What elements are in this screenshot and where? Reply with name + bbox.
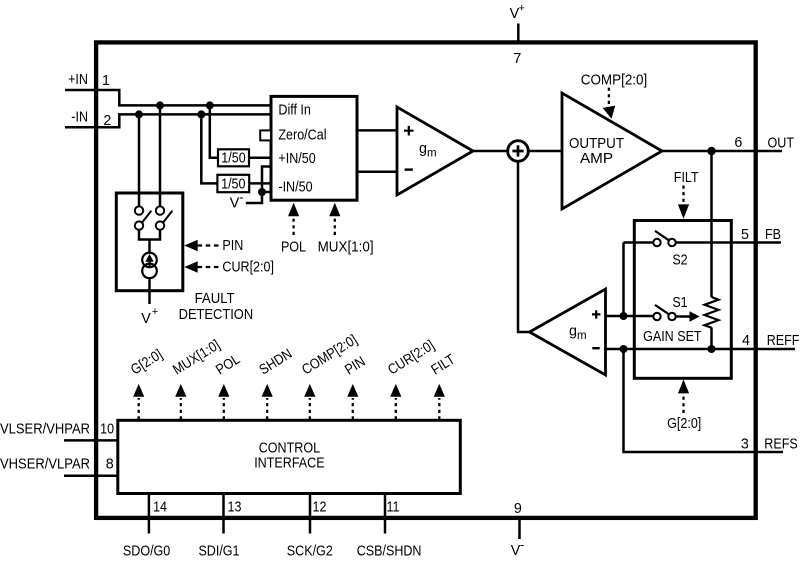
svg-text:10: 10: [100, 422, 114, 438]
svg-text:DETECTION: DETECTION: [179, 307, 254, 323]
svg-text:G[2:0]: G[2:0]: [667, 416, 701, 432]
svg-text:SDI/G1: SDI/G1: [198, 544, 239, 560]
svg-text:SCK/G2: SCK/G2: [287, 544, 333, 560]
svg-text:POL: POL: [281, 240, 306, 256]
svg-text:INTERFACE: INTERFACE: [254, 456, 324, 472]
svg-text:1: 1: [102, 73, 110, 89]
svg-text:14: 14: [153, 499, 167, 515]
svg-text:+IN: +IN: [68, 72, 88, 88]
svg-text:OUT: OUT: [768, 136, 795, 152]
svg-text:Diff In: Diff In: [278, 103, 311, 119]
svg-text:8: 8: [106, 457, 114, 473]
svg-text:FILT: FILT: [674, 170, 699, 186]
svg-text:FB: FB: [765, 227, 781, 243]
svg-text:-: -: [520, 537, 524, 552]
svg-text:S1: S1: [672, 295, 687, 311]
svg-text:S2: S2: [672, 252, 687, 268]
svg-text:SDO/G0: SDO/G0: [123, 544, 170, 560]
svg-text:FAULT: FAULT: [195, 291, 235, 307]
svg-text:6: 6: [734, 135, 742, 151]
svg-text:VLSER/VHPAR: VLSER/VHPAR: [0, 422, 90, 438]
svg-text:5: 5: [741, 227, 749, 243]
svg-text:4: 4: [742, 333, 750, 349]
svg-text:CONTROL: CONTROL: [259, 440, 320, 456]
svg-text:VHSER/VLPAR: VHSER/VLPAR: [0, 457, 90, 473]
svg-text:CSB/SHDN: CSB/SHDN: [357, 544, 422, 560]
svg-text:MUX[1:0]: MUX[1:0]: [318, 240, 374, 256]
svg-text:REFF: REFF: [767, 333, 800, 349]
svg-text:11: 11: [387, 499, 400, 515]
svg-text:1/50: 1/50: [221, 151, 245, 167]
svg-text:-: -: [239, 190, 243, 205]
svg-text:12: 12: [313, 499, 327, 515]
svg-text:3: 3: [741, 436, 749, 452]
svg-text:Zero/Cal: Zero/Cal: [278, 128, 326, 144]
svg-text:9: 9: [514, 501, 522, 517]
svg-text:+IN/50: +IN/50: [278, 151, 315, 167]
svg-text:-IN/50: -IN/50: [278, 180, 312, 196]
svg-text:-IN: -IN: [71, 110, 88, 126]
svg-text:PIN: PIN: [222, 238, 243, 254]
svg-text:2: 2: [103, 113, 111, 129]
svg-text:+: +: [152, 306, 158, 318]
svg-text:+: +: [519, 3, 525, 15]
svg-text:7: 7: [513, 51, 521, 67]
svg-text:V: V: [141, 311, 151, 327]
svg-text:13: 13: [228, 499, 242, 515]
svg-text:OUTPUT: OUTPUT: [569, 136, 624, 152]
svg-text:AMP: AMP: [580, 151, 613, 167]
svg-text:REFS: REFS: [764, 436, 797, 452]
svg-text:GAIN SET: GAIN SET: [643, 329, 702, 345]
svg-text:COMP[2:0]: COMP[2:0]: [581, 72, 648, 88]
svg-text:CUR[2:0]: CUR[2:0]: [222, 260, 274, 276]
